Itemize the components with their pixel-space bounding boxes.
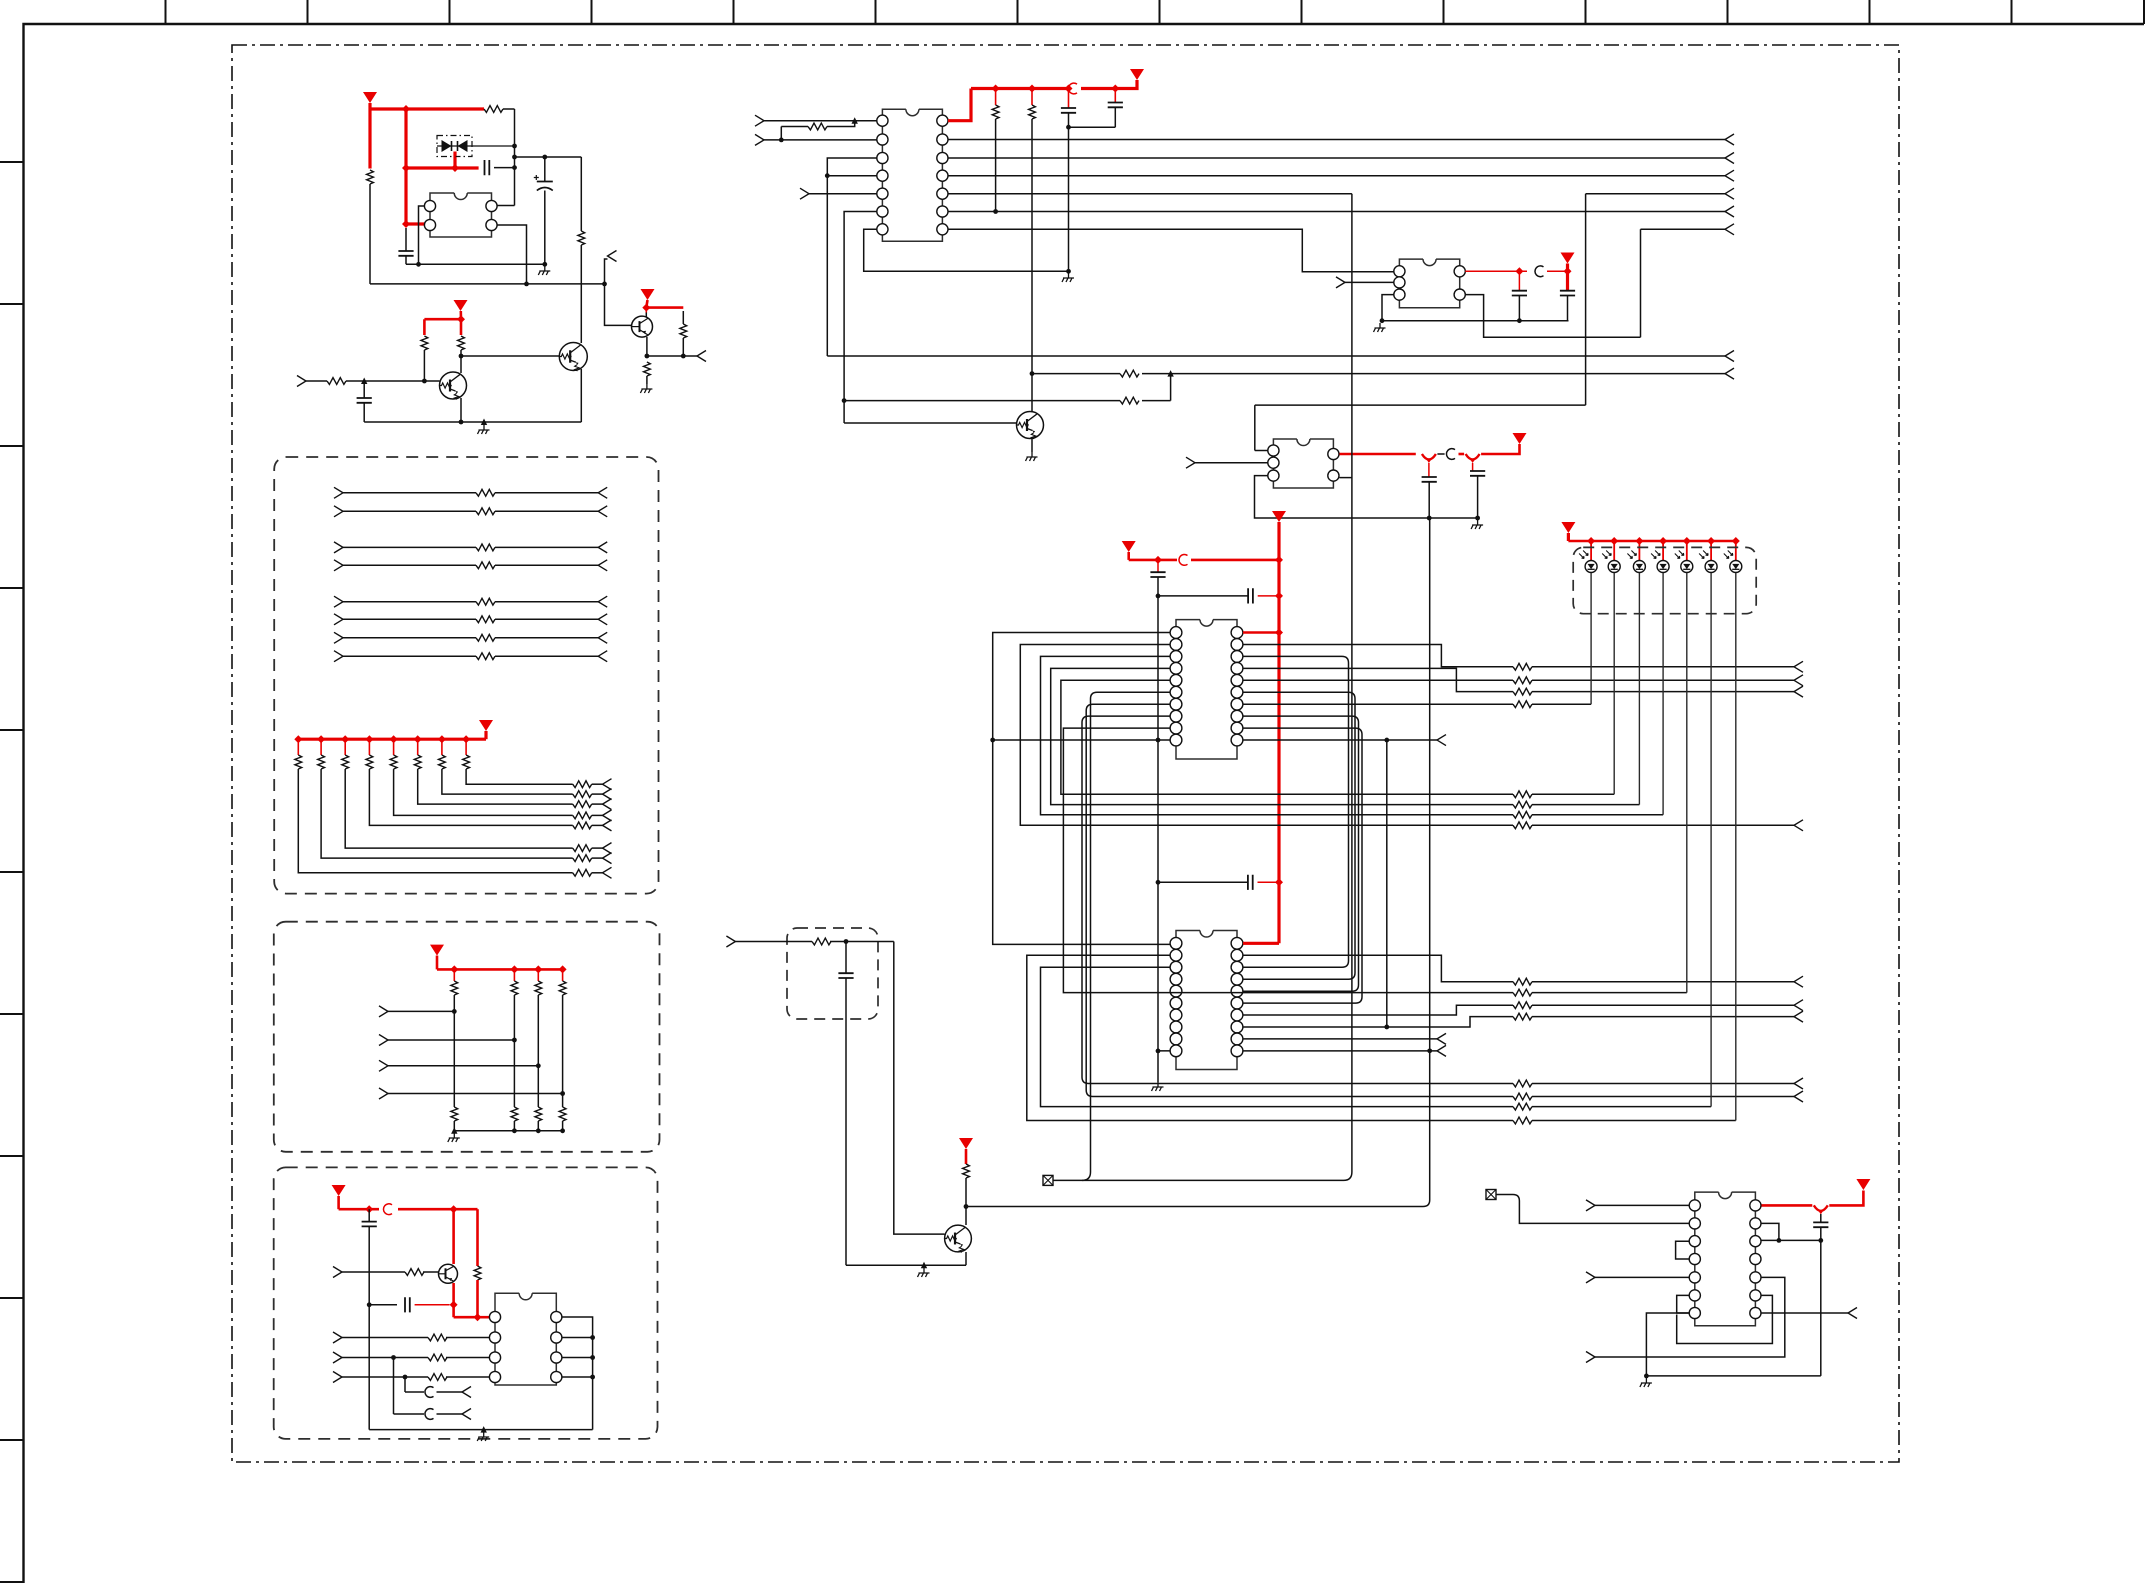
red LED riser 2 [1610, 537, 1618, 560]
IC U3 pin5 [1454, 266, 1465, 277]
red junction u3r2 [1564, 267, 1572, 275]
red bus junction D [402, 220, 410, 228]
wire U8 wrap top [1255, 450, 1268, 452]
wire Q4 emitter [1031, 438, 1033, 452]
IC U4 pin6 [1170, 686, 1182, 698]
wire LED cathode 6 [1710, 573, 1712, 1107]
wire bus row5 [948, 211, 1725, 213]
wire U4R3 drop [1243, 656, 1349, 967]
resistor RC2 [573, 855, 603, 862]
junction q3r [681, 354, 686, 359]
IC U1 pin4 [486, 200, 497, 211]
inductor L5 hop [383, 1204, 392, 1215]
inductor L3 hop [1446, 449, 1455, 460]
wire U6 row 2 [342, 1337, 489, 1339]
resistor RC6 [573, 801, 603, 808]
IC U7 pin5 [1689, 1272, 1700, 1283]
wire U3 wrap [1465, 295, 1640, 338]
resistor RD3 [535, 969, 542, 1107]
resistor R23 [1513, 1080, 1794, 1087]
power flag VCC4 [1130, 69, 1144, 80]
power flag VCC11 [479, 720, 493, 739]
IC U2 pin10 [937, 188, 948, 199]
junction box2 2 [512, 1038, 517, 1043]
junction box2 gnd [536, 1128, 541, 1133]
ground GND12 [1640, 1378, 1652, 1387]
red LED riser 5 [1683, 537, 1691, 560]
offpage arrow OP10 [1725, 351, 1734, 362]
IC U6 pin7 [551, 1332, 562, 1343]
wire U4L3 loop [1041, 656, 1514, 814]
resistor RB5 [390, 739, 573, 815]
wire U2 pin6 elbow [844, 212, 877, 424]
wire LED cathode 4 [1662, 573, 1664, 815]
IC U7 pin7 [1689, 1307, 1700, 1318]
red wire U8 out2 [1459, 453, 1465, 456]
offpage arrow OPB5 [603, 810, 612, 821]
offpage arrow OPA6 [598, 614, 607, 625]
red LED riser 7 [1732, 537, 1740, 560]
red box3 junction 2 [450, 1205, 458, 1213]
IC U6 pin2 [489, 1332, 500, 1343]
power flag VCC13 [332, 1185, 346, 1209]
RC dashed box [787, 928, 878, 1019]
red junction v3 [457, 315, 465, 323]
red rail junction r1 [992, 85, 1000, 93]
resistor RD2 [511, 969, 518, 1107]
red power bus net1 [370, 109, 484, 224]
red rail2 junction [1154, 556, 1162, 564]
wire U6 row 3 [342, 1357, 489, 1359]
wire U4R4 path [1243, 668, 1513, 691]
IC U5 pin10 [1170, 1045, 1182, 1057]
resistor RF3 [428, 1354, 447, 1361]
wire U7 pin10 wrap [1595, 1277, 1785, 1357]
resistor R19 [1513, 811, 1663, 818]
input arrow IN10 [1586, 1272, 1595, 1283]
junction g2 [542, 262, 547, 267]
input arrow INB2 [379, 1035, 388, 1046]
red box2 bus [437, 968, 563, 971]
transistor Q3 [632, 316, 653, 337]
capacitor C1 [485, 160, 515, 175]
wire U4L9 loop [1063, 728, 1513, 993]
input arrow INA5 [334, 596, 343, 607]
IC U4 pin8 [1170, 710, 1182, 722]
IC U6 pin5 [551, 1371, 562, 1382]
wire long row y283.9 [370, 283, 605, 285]
red array junction 3 [341, 735, 349, 743]
wire U4R2 path [1243, 644, 1513, 666]
transistor Q2 [559, 343, 587, 371]
resistor RA6 [476, 616, 495, 623]
IC U4 body [1176, 620, 1237, 759]
IC U2 pin2 [877, 134, 888, 145]
IC U4 pin2 [1170, 639, 1182, 651]
power flag VCC1 [363, 92, 377, 109]
red box3 drop A2 [454, 1283, 478, 1317]
resistor R2 [367, 170, 374, 284]
resistor R7 [458, 336, 465, 356]
wire U4L7 loop [1086, 704, 1513, 1096]
resistor R17 [1513, 701, 1591, 708]
junction u7c [1818, 1238, 1823, 1243]
red wire net2 [646, 306, 683, 309]
resistor R16 [1513, 677, 1794, 684]
red wire U4 vcc [1243, 631, 1279, 634]
red box3 junction 4 [474, 1313, 482, 1321]
wire U3 pin3 gnd [1382, 295, 1394, 321]
wire RC row [735, 941, 893, 943]
LED D2 [1579, 551, 1597, 573]
IC U4 pin11 [1231, 734, 1243, 746]
ground GND1 [538, 266, 550, 275]
resistor R11 [1029, 89, 1036, 413]
red rail junction r4 [1111, 85, 1119, 93]
IC U8 pin4 [1328, 470, 1339, 481]
wire Q5 collector net [966, 518, 1430, 1207]
IC U4 pin20 [1231, 627, 1243, 639]
resistor R31 [963, 1164, 970, 1225]
red array bus [298, 738, 486, 741]
input arrow INC2 [333, 1352, 342, 1363]
wire cap row1 [1158, 595, 1248, 597]
input arrow INA4 [334, 560, 343, 571]
LED D7 [1699, 551, 1717, 573]
offpage arrow OPA4 [598, 560, 607, 571]
red box3 junction 3 [450, 1301, 458, 1309]
junction n1b [512, 155, 517, 160]
connector CN3 xbox [1486, 1190, 1496, 1200]
IC U4 pin19 [1231, 639, 1243, 651]
IC U2 body [882, 109, 942, 241]
red trunk junction t4 [1275, 878, 1283, 886]
wire U2 pin7 gnd path [864, 229, 1069, 271]
IC U2 pin3 [877, 152, 888, 163]
junction m1 [1156, 594, 1161, 599]
red box2 junction 4 [559, 965, 567, 973]
IC U5 pin5 [1170, 985, 1182, 997]
wire U5R10 row [1243, 1050, 1437, 1052]
wire U7 pins67 bracket [1677, 1295, 1690, 1313]
junction u4r10 [1384, 738, 1389, 743]
offpage arrow OPA2 [598, 506, 607, 517]
wire Q2 base row [461, 355, 559, 357]
offpage arrow OPA8 [598, 651, 607, 662]
wire cap row2 [1158, 881, 1248, 883]
IC U7 pin13 [1750, 1218, 1761, 1229]
wire Q5 gnd row [846, 1264, 966, 1266]
junction h1 [524, 282, 529, 287]
offpage arrow OP19 [1794, 1000, 1803, 1011]
red LED riser 4 [1659, 537, 1667, 560]
wire box2 row 3 [388, 1065, 538, 1067]
wire U3 pin2 row [1345, 281, 1394, 283]
ground GND10 [448, 1133, 460, 1142]
junction box2 gnd [512, 1128, 517, 1133]
IC U4 pin13 [1231, 710, 1243, 722]
wire row B [1032, 373, 1725, 375]
inductor L1 hop [1068, 83, 1077, 94]
input arrow IN3 [755, 134, 764, 145]
wire CK out2 [405, 1377, 462, 1392]
wire bus row4 left [948, 193, 1352, 195]
resistor R13 [1120, 397, 1139, 404]
red wire U8 out [1340, 453, 1416, 456]
junction u7d [1777, 1238, 1782, 1243]
wire U7 pin12 elbow [1762, 1223, 1779, 1240]
red bus junction B [402, 164, 410, 172]
resistor RB4 [366, 739, 573, 825]
red wire U5 vcc [1243, 942, 1279, 945]
inductor L4 hop [1179, 554, 1188, 565]
IC U7 pin6 [1689, 1290, 1700, 1301]
red box3 drop B [474, 1209, 481, 1317]
resistor R8 [327, 378, 346, 385]
IC U5 pin2 [1170, 949, 1182, 961]
offpage arrow OP6 [1725, 188, 1734, 199]
junction c5 [1066, 125, 1071, 130]
wire row4 riser link [1255, 405, 1586, 450]
power flag VCC9 [1561, 522, 1575, 541]
wire box2 row 4 [388, 1093, 563, 1095]
wire U1 wrap [419, 206, 425, 264]
wire bus row6 left [948, 229, 1394, 271]
wire to Q3 base [605, 284, 632, 326]
IC U5 pin17 [1231, 973, 1243, 985]
wire gnd row U1 [406, 263, 545, 265]
input arrow INC3 [333, 1372, 342, 1383]
resistor RA4 [476, 562, 495, 569]
resistor RF4 [428, 1374, 447, 1381]
red array junction 4 [365, 735, 373, 743]
resistor R27 [1513, 1013, 1794, 1020]
wire U7 pin9 wrap [1677, 1295, 1773, 1343]
wire box2 row 2 [388, 1039, 514, 1041]
resistor RC4 [573, 822, 603, 829]
resistor RA8 [476, 653, 495, 660]
red wire to U6 [478, 1316, 490, 1319]
board outline (dash-dot) [232, 45, 1899, 1462]
input arrow INA1 [334, 487, 343, 498]
IC U5 pin16 [1231, 985, 1243, 997]
offpage arrow OPB3 [603, 843, 612, 854]
resistor RA7 [476, 634, 495, 641]
junction arrow j1 [361, 378, 367, 385]
IC U2 pin1 [877, 115, 888, 126]
red LED riser 6 [1707, 537, 1715, 560]
IC U2 pin8 [937, 224, 948, 235]
resistor RC1 [573, 869, 603, 876]
power flag VCC2 [641, 289, 655, 308]
resistor R5 [644, 362, 651, 384]
wire red to U5 pin [1243, 942, 1279, 945]
IC U7 pin2 [1689, 1218, 1700, 1229]
red dip DP2 [1466, 454, 1480, 463]
wire U4R5 path [1243, 679, 1513, 681]
wire U2 pin5 row [809, 193, 877, 195]
red junction u3r1 [1515, 267, 1523, 275]
junction arrow j4 [1167, 370, 1173, 377]
input arrow INA3 [334, 542, 343, 553]
IC U1 pin1 [424, 200, 435, 211]
IC U2 pin11 [937, 170, 948, 181]
IC U1 pin2 [424, 219, 435, 230]
junction u6a [391, 1355, 396, 1360]
resistor R1 [484, 106, 515, 113]
red wire U8 out3 [1481, 444, 1519, 454]
IC U8 body [1273, 439, 1333, 488]
offpage arrow OP4 [1725, 153, 1734, 164]
input arrow INA6 [334, 614, 343, 625]
wire U4L4 loop [1051, 668, 1513, 804]
capacitor C12 [1248, 588, 1279, 603]
IC U1 pin3 [486, 219, 497, 230]
IO dashed box3 [274, 1167, 658, 1439]
junction p7 [1066, 269, 1071, 274]
wire Q4 base row [844, 422, 1016, 424]
wire U2 pin1 row [764, 120, 877, 122]
red wire U7 vcc [1762, 1191, 1864, 1206]
red array junction 6 [414, 735, 422, 743]
junction u8g2 [1475, 516, 1480, 521]
wire Q1 emitter [460, 398, 462, 422]
junction u6r4 [590, 1375, 595, 1380]
red LED riser 3 [1635, 537, 1643, 560]
red rail2 [1129, 559, 1279, 562]
offpage arrow OP11 [1794, 661, 1803, 672]
offpage arrow OP23 [1848, 1308, 1857, 1319]
wire U7 pin1 row [1595, 1204, 1689, 1206]
wire U7 pin5 row [1595, 1276, 1689, 1278]
wire node row y157 [515, 156, 582, 158]
wire LED cathode 2 [1613, 573, 1615, 794]
junction box2 gnd [560, 1128, 565, 1133]
IO dashed box2 [274, 922, 660, 1152]
junction b3c [367, 1302, 372, 1307]
junction m4 [1156, 1049, 1161, 1054]
input arrow INB1 [379, 1006, 388, 1017]
wire io row 5 [343, 601, 598, 603]
ground GND3 [478, 425, 490, 434]
offpage arrow OP5 [1725, 170, 1734, 181]
wire U5R2 path [1243, 955, 1513, 981]
IC U3 pin3 [1394, 289, 1405, 300]
capacitor C4 [357, 381, 372, 422]
offpage arrow OPC2 [462, 1387, 471, 1398]
IC U8 pin3 [1268, 470, 1279, 481]
IC U6 body [495, 1293, 556, 1385]
wire R9 link [781, 121, 854, 140]
IC U4 pin4 [1170, 662, 1182, 674]
wire U5R9 row [1243, 1038, 1437, 1040]
IC U7 pin9 [1750, 1290, 1761, 1301]
IC U8 pin5 [1328, 448, 1339, 459]
power flag VCC6 [1513, 433, 1527, 444]
red dip DP1 [1422, 454, 1436, 463]
IC U5 pin3 [1170, 961, 1182, 973]
junction b1 [422, 379, 427, 384]
resistor RC3 [573, 845, 603, 852]
IC U3 pin1 [1394, 266, 1405, 277]
IC U4 pin7 [1170, 698, 1182, 710]
wire U4L1 loop [993, 633, 1171, 945]
wire long net X [1054, 194, 1352, 1181]
wire U4R7 path [1243, 703, 1513, 705]
wire U4R8 drop [1243, 716, 1359, 991]
IC U5 pin15 [1231, 997, 1243, 1009]
IC U4 pin17 [1231, 662, 1243, 674]
power flag VCC8 [1122, 541, 1136, 560]
resistor RD4 [559, 969, 566, 1107]
input arrow IN11 [1586, 1352, 1595, 1363]
red bus junction A [402, 105, 410, 113]
junction u6r2 [590, 1335, 595, 1340]
junction n1c [512, 165, 517, 170]
junction u6r3 [590, 1355, 595, 1360]
wire U4 L6 drop [1082, 692, 1170, 1180]
junction u5r10 [1427, 1048, 1432, 1053]
red array junction 2 [317, 735, 325, 743]
wire U8 wrap bottom [1255, 476, 1478, 518]
wire bus row6 right [1641, 229, 1726, 337]
offpage arrow OP15 [1794, 820, 1803, 831]
wire U8 pin5 link [1339, 477, 1352, 479]
IC U6 pin8 [551, 1311, 562, 1322]
resistor RC7 [573, 791, 603, 798]
power flag VCC5 [1561, 253, 1575, 291]
wire Q3 emitter row [647, 337, 697, 356]
junction rc1 [844, 939, 849, 944]
wire LED cathode 7 [1735, 573, 1737, 1121]
resistor R20 [1513, 801, 1639, 808]
wire Q2 emitter [580, 369, 582, 422]
junction arrow j7 [481, 1426, 487, 1433]
offpage arrow OPB1 [603, 867, 612, 878]
IC U2 pin5 [877, 188, 888, 199]
offpage arrow OPB8 [603, 779, 612, 790]
wire U4R10 row [1243, 739, 1437, 741]
IC U7 pin4 [1689, 1253, 1700, 1264]
IC U6 pin3 [489, 1352, 500, 1363]
offpage arrow OP12 [1794, 686, 1803, 697]
red dip DP3 [1814, 1205, 1828, 1214]
IC U4 pin18 [1231, 651, 1243, 663]
wire U4L5 loop [1061, 680, 1513, 794]
junction u8g1 [1427, 516, 1432, 521]
resistor R3 [578, 157, 585, 343]
offpage arrow OP14 [1437, 735, 1446, 746]
input arrow IN2 [755, 115, 764, 126]
IC U5 pin7 [1170, 1009, 1182, 1021]
IC U4 pin16 [1231, 674, 1243, 686]
IC U6 pin4 [489, 1371, 500, 1382]
wire U1 pin3 elbow [497, 225, 527, 284]
red LED rail [1568, 540, 1735, 543]
wire U6 row 4 [342, 1376, 489, 1378]
wire row C [844, 374, 1171, 401]
capacitor C11 [1150, 560, 1165, 1082]
junction u3g [1380, 318, 1385, 323]
junction h2 [602, 282, 607, 287]
wire U4L2 loop [1020, 644, 1513, 825]
LED D5 [1651, 551, 1669, 573]
IC U5 pin12 [1231, 1033, 1243, 1045]
IC U4 pin14 [1231, 698, 1243, 710]
junction p2 [779, 138, 784, 143]
IC U4 pin5 [1170, 674, 1182, 686]
resistor RB7 [439, 739, 573, 794]
